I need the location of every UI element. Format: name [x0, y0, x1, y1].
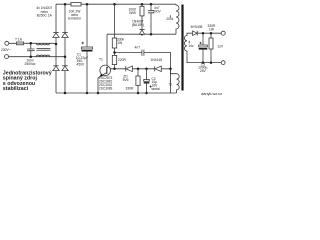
svg-text:T 1A: T 1A [15, 37, 23, 41]
svg-text:4n7: 4n7 [135, 45, 141, 49]
svg-text:450V: 450V [77, 63, 86, 67]
svg-text:stabilizací: stabilizací [3, 86, 29, 92]
svg-text:2SC3089: 2SC3089 [99, 87, 113, 91]
svg-text:T1: T1 [99, 57, 103, 61]
svg-text:7z: 7z [169, 82, 173, 86]
svg-text:14z: 14z [188, 44, 194, 48]
svg-text:250Vac: 250Vac [25, 62, 36, 66]
svg-text:230V~: 230V~ [1, 48, 11, 52]
svg-text:B250C 1A: B250C 1A [37, 14, 53, 18]
svg-text:(BA159): (BA159) [132, 23, 144, 27]
svg-text:0W5: 0W5 [129, 11, 136, 15]
svg-text:termistor: termistor [68, 17, 82, 21]
svg-text:12V: 12V [217, 44, 224, 48]
svg-text:tantal: tantal [152, 87, 160, 91]
svg-text:danyk.wz.cz: danyk.wz.cz [201, 92, 222, 96]
svg-text:BY5408: BY5408 [191, 25, 203, 29]
svg-text:330R: 330R [126, 86, 135, 90]
svg-text:1W: 1W [209, 27, 215, 31]
svg-text:220R: 220R [118, 58, 127, 62]
svg-text:1N4148: 1N4148 [151, 58, 163, 62]
svg-text:1W: 1W [117, 41, 123, 45]
svg-text:25V: 25V [200, 69, 207, 73]
svg-text:5V6: 5V6 [123, 78, 129, 82]
svg-text:500V: 500V [153, 10, 162, 14]
